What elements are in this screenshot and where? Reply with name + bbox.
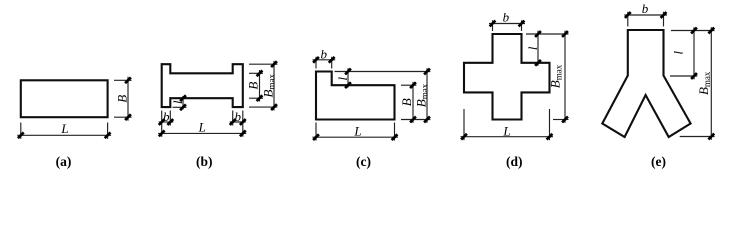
dimension L of (a): witness lines and dim line	[17, 123, 111, 139]
tick top end of Bmax (d)	[562, 31, 568, 37]
tick bottom end of l (b)	[180, 104, 186, 110]
svg-text:l: l	[525, 46, 540, 50]
tick right end of b (d)	[519, 21, 525, 27]
dimension l of (d)	[526, 31, 569, 66]
dimension l of (e)	[670, 27, 715, 79]
label Bmax of (c), rotated	[414, 83, 430, 107]
svg-text:b: b	[503, 10, 510, 25]
tick left end of b (d)	[490, 21, 496, 27]
tick at left end of L (a)	[18, 132, 24, 138]
tick bottom end of l (d)	[535, 60, 541, 66]
tick left end of L (d)	[461, 134, 467, 140]
svg-text:l: l	[335, 77, 350, 81]
svg-text:b: b	[163, 109, 170, 124]
shape (e) Y outline	[602, 30, 690, 137]
tick bottom end of Bmax (d)	[562, 117, 568, 123]
dimension b right of (b)	[230, 111, 246, 137]
shape (c) stepped outline	[316, 72, 395, 120]
dimension b of (d)	[489, 20, 525, 31]
svg-text:(a): (a)	[56, 154, 72, 169]
tick top end of Bmax (e)	[708, 28, 714, 34]
dimension Bmax of (d)	[553, 31, 569, 123]
tick right end of b (e)	[661, 12, 667, 18]
svg-text:L: L	[198, 119, 206, 134]
svg-text:Bmax: Bmax	[414, 83, 430, 107]
dimension B of (c)	[401, 82, 430, 123]
shape (b) I-shape outline	[162, 64, 243, 107]
svg-text:(c): (c)	[356, 154, 371, 169]
svg-text:b: b	[642, 1, 649, 16]
svg-text:(d): (d)	[506, 154, 523, 169]
tick left end of b (c)	[313, 57, 319, 63]
dimension b of (c)	[313, 57, 336, 69]
tick right end of b-left (b)	[167, 119, 173, 125]
svg-text:L: L	[502, 123, 510, 138]
dimension Bmax of (e)	[680, 27, 715, 140]
svg-text:Bmax: Bmax	[696, 71, 712, 95]
svg-text:Bmax: Bmax	[260, 73, 276, 97]
tick left end of b-left (b)	[159, 119, 165, 125]
label Bmax of (d), rotated	[548, 64, 564, 88]
tick top end of B (c)	[410, 82, 416, 88]
svg-text:B: B	[246, 82, 261, 90]
dimension b of (e)	[624, 12, 667, 27]
tick bottom end of Bmax (e)	[708, 134, 714, 140]
dimension Bmax of (c)	[426, 68, 428, 123]
tick at bottom end of B (a)	[125, 114, 131, 120]
svg-text:l: l	[170, 100, 185, 104]
dimension B of (b)	[249, 70, 263, 102]
svg-text:b: b	[321, 47, 328, 62]
tick at right end of L (a)	[105, 132, 111, 138]
tick left end of b (e)	[625, 12, 631, 18]
tick right end of L (c)	[392, 134, 398, 140]
tick right end of L (d)	[547, 134, 553, 140]
tick bottom end of B (c)	[410, 117, 416, 123]
tick left end of L (c)	[313, 134, 319, 140]
shape (d) cross outline	[464, 34, 550, 120]
tick top end of l (c)	[345, 69, 351, 75]
tick right end of b (c)	[329, 57, 335, 63]
svg-text:B: B	[115, 95, 130, 103]
dimension Bmax of (b)	[249, 61, 277, 111]
tick at top end of B (a)	[125, 77, 131, 83]
dimension L of (c)	[313, 123, 399, 141]
tick top end of B (b)	[257, 70, 263, 76]
tick right end of b-right (b)	[240, 119, 246, 125]
tick top end of Bmax (c)	[424, 69, 430, 75]
tick right end of L (b)	[240, 131, 246, 137]
svg-text:b: b	[234, 109, 241, 124]
svg-text:l: l	[671, 51, 686, 55]
tick top end of l (d)	[535, 31, 541, 37]
dimension b left of (b)	[159, 111, 174, 137]
tick bottom end of l (c)	[345, 82, 351, 88]
dimension L of (d)	[461, 109, 554, 140]
tick bottom end of Bmax (c)	[424, 117, 430, 123]
tick top end of l (e)	[691, 28, 697, 34]
svg-text:(b): (b)	[196, 154, 213, 169]
label Bmax of (b), rotated	[260, 73, 276, 97]
dimension l of (c)	[335, 68, 431, 87]
svg-text:L: L	[60, 121, 68, 136]
svg-text:B: B	[399, 98, 414, 106]
tick top end of Bmax (b)	[271, 61, 277, 67]
tick left end of b-right (b)	[230, 119, 236, 125]
svg-text:(e): (e)	[651, 154, 666, 169]
tick bottom end of l (e)	[691, 73, 697, 79]
shape (a) rectangle outline	[21, 80, 108, 117]
dimension L of (b)	[158, 132, 246, 134]
tick top end of l (b)	[180, 95, 186, 101]
tick bottom end of B (b)	[257, 95, 263, 101]
tick left end of L (b)	[159, 131, 165, 137]
label Bmax of (e), rotated	[696, 71, 712, 95]
tick bottom end of Bmax (b)	[271, 104, 277, 110]
svg-text:L: L	[353, 124, 361, 139]
dimension l of (b): witness and dim line	[173, 96, 187, 110]
dimension B of (a): witness lines and dim line	[114, 77, 132, 121]
